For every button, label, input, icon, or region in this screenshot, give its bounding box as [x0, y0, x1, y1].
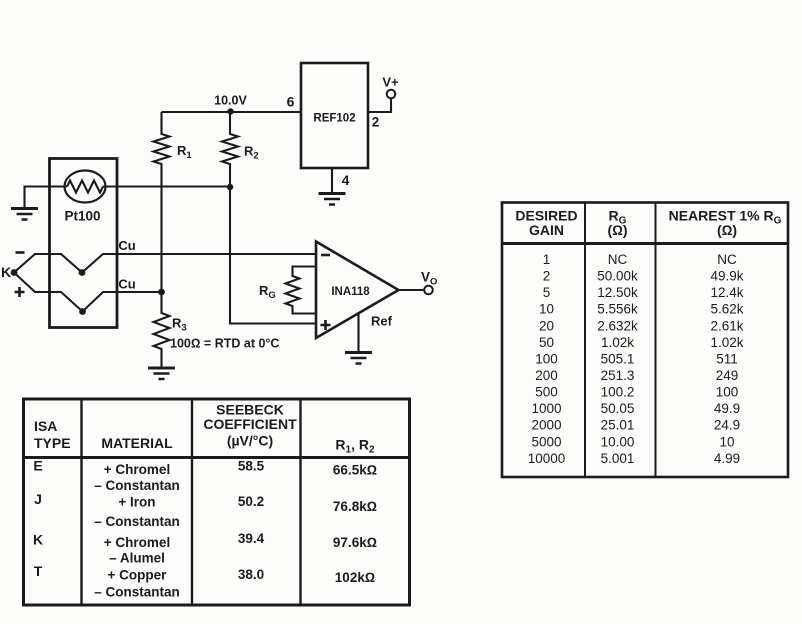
svg-text:T: T — [34, 563, 43, 579]
svg-text:100: 100 — [716, 385, 739, 400]
svg-text:4: 4 — [342, 172, 350, 188]
polarity plus — [15, 287, 25, 297]
wire thermocouple Cu bottom — [14, 273, 162, 312]
svg-text:100: 100 — [535, 352, 558, 367]
wire RTD to ground — [25, 187, 68, 209]
wire R1 branch down — [160, 170, 162, 292]
wire R2 to RTD rail — [229, 170, 231, 187]
svg-text:50.2: 50.2 — [238, 494, 264, 509]
svg-text:5.556k: 5.556k — [597, 302, 638, 317]
svg-text:R2: R2 — [244, 144, 259, 162]
svg-text:REF102: REF102 — [313, 113, 355, 125]
svg-text:GAIN: GAIN — [529, 222, 564, 238]
ground Ref — [345, 353, 372, 364]
pin 4 wire — [331, 168, 333, 193]
svg-text:NC: NC — [608, 252, 628, 267]
svg-text:511: 511 — [716, 352, 738, 367]
svg-text:12.4k: 12.4k — [710, 285, 743, 300]
svg-text:1000: 1000 — [531, 401, 561, 416]
wire thermocouple Cu top — [14, 254, 316, 273]
svg-text:4.99: 4.99 — [714, 451, 740, 466]
svg-text:+ Chromel: + Chromel — [104, 462, 170, 477]
svg-text:TYPE: TYPE — [34, 435, 71, 451]
svg-text:RG: RG — [259, 283, 276, 301]
svg-text:J: J — [34, 491, 42, 507]
RTD Pt100 — [50, 159, 118, 328]
wire Ref — [357, 314, 359, 352]
svg-text:12.50k: 12.50k — [597, 285, 638, 300]
svg-text:5.62k: 5.62k — [710, 302, 743, 317]
svg-text:K: K — [33, 532, 43, 548]
svg-text:38.0: 38.0 — [238, 567, 264, 582]
resistor R3 — [154, 292, 170, 367]
table thermocouple ISA types — [24, 399, 410, 605]
junction thermocouple bottom — [79, 308, 86, 315]
svg-text:251.3: 251.3 — [601, 368, 635, 383]
svg-text:102kΩ: 102kΩ — [335, 570, 375, 585]
svg-text:66.5kΩ: 66.5kΩ — [333, 463, 377, 478]
ground R3 — [148, 368, 175, 379]
svg-text:MATERIAL: MATERIAL — [101, 435, 173, 451]
svg-text:(µV/°C): (µV/°C) — [227, 433, 273, 449]
svg-text:2.61k: 2.61k — [710, 319, 743, 334]
wire 10.0V rail — [162, 111, 302, 113]
svg-text:58.5: 58.5 — [238, 459, 265, 474]
svg-text:– Constantan: – Constantan — [94, 478, 180, 493]
svg-text:ISA: ISA — [34, 418, 57, 434]
svg-text:49.9k: 49.9k — [710, 269, 743, 284]
terminal K — [1, 264, 17, 280]
svg-text:Pt100: Pt100 — [64, 209, 100, 224]
wire to noninverting input — [230, 187, 316, 324]
svg-text:50.00k: 50.00k — [597, 269, 638, 284]
svg-text:R1, R2: R1, R2 — [335, 437, 375, 456]
wire RTD rail right — [103, 185, 230, 187]
svg-text:(Ω): (Ω) — [717, 222, 737, 238]
svg-text:76.8kΩ: 76.8kΩ — [333, 499, 377, 514]
svg-text:Cu: Cu — [118, 277, 135, 292]
svg-text:2000: 2000 — [531, 418, 561, 433]
junction RTD rail node — [227, 184, 233, 190]
svg-text:V+: V+ — [382, 75, 399, 90]
svg-text:1: 1 — [543, 252, 551, 267]
svg-text:20: 20 — [539, 319, 554, 334]
svg-text:50: 50 — [539, 335, 554, 350]
svg-text:39.4: 39.4 — [238, 531, 265, 546]
svg-text:– Constantan: – Constantan — [94, 514, 180, 529]
svg-text:INA118: INA118 — [331, 286, 370, 298]
svg-text:(Ω): (Ω) — [607, 222, 627, 238]
svg-text:10000: 10000 — [528, 451, 566, 466]
svg-text:2.632k: 2.632k — [597, 319, 638, 334]
svg-text:E: E — [33, 458, 42, 474]
node 10.0V — [214, 94, 247, 115]
op-amp INA118 — [316, 242, 399, 339]
svg-text:VO: VO — [421, 270, 437, 288]
svg-text:– Constantan: – Constantan — [94, 585, 180, 600]
svg-text:+ Iron: + Iron — [118, 495, 155, 510]
svg-text:500: 500 — [535, 385, 558, 400]
svg-text:R3: R3 — [172, 316, 187, 334]
resistor R1 — [154, 112, 170, 170]
svg-text:10: 10 — [719, 435, 734, 450]
junction thermocouple top — [79, 269, 86, 276]
svg-text:2: 2 — [372, 115, 380, 130]
svg-text:2: 2 — [543, 269, 551, 284]
svg-text:24.9: 24.9 — [714, 418, 740, 433]
junction R1 R3 node — [158, 289, 165, 296]
svg-text:COEFFICIENT: COEFFICIENT — [203, 416, 297, 432]
svg-text:200: 200 — [535, 368, 558, 383]
svg-text:6: 6 — [287, 94, 295, 110]
svg-text:100Ω = RTD at 0°C: 100Ω = RTD at 0°C — [170, 337, 279, 351]
terminal V+ — [368, 75, 399, 113]
IC REF102 — [301, 63, 368, 168]
svg-text:249: 249 — [716, 368, 739, 383]
terminal Vo — [421, 270, 437, 295]
svg-text:505.1: 505.1 — [601, 352, 635, 367]
svg-text:10.0V: 10.0V — [214, 94, 247, 108]
svg-text:+ Copper: + Copper — [108, 568, 168, 583]
svg-text:K: K — [1, 264, 11, 280]
resistor RG — [286, 267, 317, 314]
svg-text:1.02k: 1.02k — [601, 335, 634, 350]
ground REF102 pin 4 — [319, 194, 346, 205]
svg-text:100.2: 100.2 — [601, 385, 635, 400]
svg-text:NC: NC — [717, 252, 737, 267]
svg-text:Ref: Ref — [371, 314, 393, 329]
svg-text:5000: 5000 — [531, 435, 561, 450]
resistor R2 — [222, 112, 238, 170]
polarity minus — [16, 251, 25, 254]
svg-text:5.001: 5.001 — [601, 451, 635, 466]
wire output — [399, 289, 425, 291]
svg-text:5: 5 — [543, 285, 551, 300]
svg-text:49.9: 49.9 — [714, 401, 740, 416]
svg-text:R1: R1 — [177, 143, 192, 161]
svg-text:25.01: 25.01 — [601, 418, 635, 433]
svg-text:1.02k: 1.02k — [710, 335, 743, 350]
table gain resistor values — [502, 203, 788, 478]
svg-text:Cu: Cu — [118, 238, 135, 253]
svg-text:97.6kΩ: 97.6kΩ — [333, 535, 377, 550]
svg-text:+ Chromel: + Chromel — [104, 535, 170, 550]
svg-text:10.00: 10.00 — [601, 435, 635, 450]
svg-text:10: 10 — [539, 302, 554, 317]
svg-text:50.05: 50.05 — [601, 401, 635, 416]
ground Pt100 — [11, 209, 38, 220]
svg-text:– Alumel: – Alumel — [109, 551, 165, 566]
